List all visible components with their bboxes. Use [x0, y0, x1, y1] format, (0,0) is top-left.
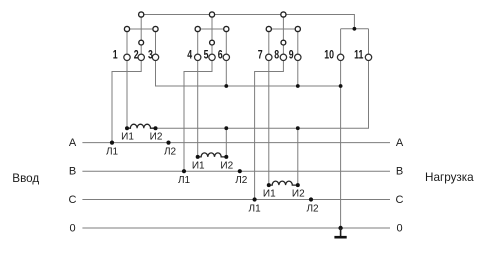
wire: group1 left link vertical to terminal 1 [126, 29, 128, 54]
svg-text:И2: И2 [220, 160, 233, 171]
wire: terminal 7 to И1 of CT C [268, 60, 270, 185]
svg-text:И1: И1 [121, 132, 134, 143]
wire: group1 link bar over terminals 1-3 [127, 28, 156, 30]
node: group1 right link circle [153, 26, 158, 31]
svg-text:7: 7 [258, 48, 263, 62]
svg-text:1: 1 [113, 48, 118, 62]
svg-text:Л2: Л2 [306, 203, 319, 214]
terminal circle 7 [266, 54, 272, 60]
node Л1 of CT C [253, 197, 257, 201]
svg-text:9: 9 [289, 48, 294, 62]
node И2 of CT A [154, 126, 158, 130]
junction: grounded bus meets terminal 10 riser [339, 84, 343, 88]
svg-text:И1: И1 [263, 189, 276, 200]
wire: group3 right link vertical to terminal 9 [297, 29, 299, 54]
terminal circle 8 [280, 54, 286, 60]
svg-text:С: С [396, 194, 404, 206]
node И1 of CT A [125, 126, 129, 130]
svg-text:В: В [69, 166, 76, 178]
wire: group2 center vertical (bus to terminal 5) [211, 15, 213, 54]
junction: И2 bus to CT B riser [224, 126, 228, 130]
node Л2 of CT B [238, 169, 242, 173]
node И2 of CT C [296, 183, 300, 187]
ground symbol [340, 228, 342, 236]
node: group1 voltage link circle [139, 40, 144, 45]
wire: group3 center vertical (bus to terminal 8) [282, 15, 284, 54]
terminal circle 3 [152, 54, 158, 60]
svg-text:Л2: Л2 [235, 175, 248, 186]
wire: phase A line [82, 142, 390, 144]
junction: riser on neutral line [338, 226, 342, 230]
terminal circle 6 [223, 54, 229, 60]
svg-text:И1: И1 [192, 160, 205, 171]
wire: group2 left link vertical to terminal 4 [197, 29, 199, 54]
node И1 of CT C [267, 183, 271, 187]
svg-text:Ввод: Ввод [12, 172, 39, 185]
svg-text:0: 0 [69, 222, 75, 234]
node: group2 voltage link circle [210, 40, 215, 45]
svg-text:А: А [396, 137, 404, 149]
terminal circle 9 [295, 54, 301, 60]
wire: group2 right link vertical to terminal 6 [225, 29, 227, 54]
terminal circle 10 [337, 54, 343, 60]
wire: group3 left link vertical to terminal 7 [268, 29, 270, 54]
node: group1 left link circle [124, 26, 129, 31]
wire: down to terminal 10 [340, 29, 342, 54]
junction: terminal 6 on grounded bus [224, 84, 228, 88]
wire: И2 riser of CT C [297, 128, 299, 185]
node И1 of CT B [196, 155, 200, 159]
junction: terminal 9 on grounded bus [296, 84, 300, 88]
svg-text:В: В [396, 166, 403, 178]
node Л1 of CT A [110, 141, 114, 145]
svg-text:5: 5 [204, 48, 209, 62]
svg-text:И2: И2 [292, 189, 305, 200]
svg-text:4: 4 [187, 48, 192, 62]
node Л2 of CT C [309, 197, 313, 201]
wire: terminal 10 riser down to neutral and earth [340, 60, 342, 228]
node: group2 right link circle [224, 26, 229, 31]
wire: top voltage bus from group1 to corner above terminals 10/11 [141, 15, 354, 29]
node: group1 bus circle [139, 12, 144, 17]
node Л2 of CT A [166, 141, 170, 145]
svg-text:0: 0 [396, 222, 402, 234]
wire: grounded secondary bus from terminal 3 to terminal 10 riser [156, 60, 341, 86]
terminal circle 1 [124, 54, 130, 60]
node Л1 of CT B [182, 169, 186, 173]
wire: terminal 8 voltage tap to Л1 of phase C [255, 60, 284, 199]
wire: terminal 4 to И1 of CT B [197, 60, 199, 157]
junction: И2 bus to CT C riser [296, 126, 300, 130]
svg-text:И2: И2 [150, 132, 163, 143]
wire: down to terminal 11 [368, 29, 370, 54]
svg-text:3: 3 [148, 48, 153, 62]
transformer T1 secondary coil (phase A) [127, 124, 156, 128]
node: group3 right link circle [295, 26, 300, 31]
node: group3 left link circle [266, 26, 271, 31]
svg-text:10: 10 [324, 48, 334, 62]
node: group3 voltage link circle [281, 40, 286, 45]
wire: terminal 9 drop to grounded bus [297, 60, 299, 86]
svg-text:Л2: Л2 [164, 146, 177, 157]
wire: terminal 5 voltage tap to Л1 of phase B [184, 60, 212, 171]
terminal circle 11 [365, 54, 371, 60]
wire: terminal 6 drop to grounded bus [225, 60, 227, 86]
wire: И2 common bus from CT A to terminal 11 [156, 60, 369, 128]
wire: terminal 1 to И1 of CT A [126, 60, 128, 128]
transformer T3 secondary coil (phase C) [269, 181, 298, 185]
wire: group1 right link vertical to terminal 3 [155, 29, 157, 54]
wire: link bar terminals 10-11 [341, 28, 369, 30]
svg-text:Л1: Л1 [249, 203, 262, 214]
svg-text:Л1: Л1 [178, 175, 191, 186]
node: group2 bus circle [209, 12, 214, 17]
svg-text:11: 11 [354, 48, 363, 62]
svg-text:Л1: Л1 [106, 146, 119, 157]
wire: terminal 2 voltage tap to Л1 of phase A [112, 60, 141, 142]
terminal circle 5 [209, 54, 215, 60]
svg-text:6: 6 [218, 48, 223, 62]
svg-text:2: 2 [134, 48, 139, 62]
wire: group2 link bar over terminals 4-6 [198, 28, 227, 30]
svg-text:С: С [69, 194, 77, 206]
terminal circle 4 [195, 54, 201, 60]
transformer T2 secondary coil (phase B) [198, 153, 227, 157]
junction: top bus to 10-11 bar [353, 27, 357, 31]
svg-text:Нагрузка: Нагрузка [425, 171, 474, 184]
svg-text:А: А [69, 137, 77, 149]
wire: group3 link bar over terminals 7-9 [269, 28, 298, 30]
node И2 of CT B [224, 155, 228, 159]
wire: group1 center vertical (bus to terminal 2) [140, 15, 142, 54]
svg-text:8: 8 [274, 48, 279, 62]
node: group2 left link circle [195, 26, 200, 31]
terminal circle 2 [138, 54, 144, 60]
wire: neutral 0 line [82, 227, 390, 229]
node: group3 bus circle [281, 12, 286, 17]
wire: phase B line [82, 170, 390, 172]
wire: phase C line [82, 199, 390, 201]
wire: И2 riser of CT B [225, 128, 227, 157]
